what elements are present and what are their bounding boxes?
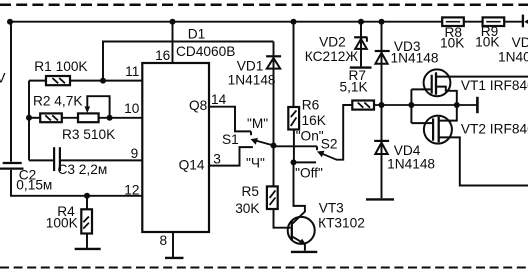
svg-text:"Off": "Off" <box>295 165 323 180</box>
ground bar under VD4 <box>366 198 394 200</box>
wire: S2 off node down to VT3 collector <box>293 162 305 223</box>
svg-text:КТ3102: КТ3102 <box>318 216 365 231</box>
junction R3/wiper/pin10 <box>107 115 113 121</box>
wire: R7 right to output row and terminal <box>374 104 476 106</box>
wire: S1 common to S2 On contact <box>274 145 318 147</box>
wire: R4 top lead <box>86 196 88 210</box>
svg-text:R6: R6 <box>302 97 320 112</box>
wire: R4 bottom lead <box>86 234 88 248</box>
transistor VT3 circle <box>288 217 315 244</box>
wire: R1 right lead to pin 11 <box>70 80 143 82</box>
junction on bus at left vertical <box>7 19 13 25</box>
zener VD2 cathode bar <box>354 36 367 38</box>
VT2 gate bar <box>432 118 434 140</box>
svg-text:VD2: VD2 <box>319 35 346 50</box>
VT1 gate bar <box>431 75 433 94</box>
wire: VT2 gate lead <box>411 122 433 124</box>
svg-text:1N4007: 1N4007 <box>498 49 528 64</box>
svg-text:R3 510K: R3 510K <box>62 127 115 142</box>
diode VD1 triangle <box>267 58 280 69</box>
junction VT1 source / VT2 drain / output <box>454 102 460 108</box>
svg-text:5,1K: 5,1K <box>340 79 368 94</box>
diode VD4 cathode bar <box>374 140 389 142</box>
ground bar under VT3 emitter <box>291 251 317 253</box>
capacitor C3 plates <box>53 147 55 171</box>
junction gate bus on output row <box>408 102 414 108</box>
junction RC node at R2 <box>26 115 32 121</box>
svg-text:V: V <box>0 71 6 86</box>
svg-text:12: 12 <box>124 183 139 198</box>
zener VD2 triangle <box>355 39 367 49</box>
junction on bus at pin16 drop <box>170 19 176 25</box>
resistor R5 body <box>267 186 278 209</box>
svg-text:C3 2,2м: C3 2,2м <box>58 162 108 177</box>
svg-text:10K: 10K <box>475 34 499 49</box>
svg-text:1N4148: 1N4148 <box>228 73 276 88</box>
S2 blade arrowhead <box>317 151 325 158</box>
svg-text:VD4: VD4 <box>394 143 421 158</box>
wire: pin 8 to ground <box>172 232 174 257</box>
VT3 emitter arrowhead <box>298 239 306 245</box>
zener VD2 bar tick <box>366 37 368 42</box>
resistor R8 body <box>442 17 464 26</box>
resistor R9 body <box>483 17 505 26</box>
wire: C2 bottom to pin 12 <box>11 170 143 196</box>
svg-text:8: 8 <box>160 233 168 248</box>
VT2 channel bar <box>438 117 440 143</box>
diode VD5 cathode bar <box>522 15 524 28</box>
resistor R6 body <box>288 107 299 130</box>
junction S1 common / VD1 anode / R5 <box>271 143 277 149</box>
wire: R2 left lead <box>29 117 40 119</box>
wire: bus drop to R6 <box>293 22 295 107</box>
svg-text:CD4060B: CD4060B <box>176 44 235 59</box>
wire: R3 right lead to pin 10 <box>99 117 143 119</box>
svg-text:11: 11 <box>125 64 139 79</box>
svg-text:VT3: VT3 <box>319 200 344 215</box>
R3 wiper arm wire <box>87 96 109 118</box>
svg-text:VT1 IRF840: VT1 IRF840 <box>461 78 528 93</box>
svg-text:30K: 30K <box>235 201 259 216</box>
ground bar under VD2 <box>350 66 372 68</box>
wire: RC common node vertical <box>28 81 30 161</box>
wire: VDD drop to pin 16 <box>172 22 174 63</box>
resistor R4 body <box>81 209 92 233</box>
wire: VD1 cathode line down through S1 common to R5 <box>273 42 275 187</box>
wire: C3 to pin 9 <box>61 159 143 161</box>
svg-text:КС212Ж: КС212Ж <box>305 49 359 64</box>
wire: S2 Off contact stub <box>294 161 317 163</box>
svg-text:S1: S1 <box>222 132 239 147</box>
wire: VD3/VD4 vertical line <box>381 22 383 199</box>
svg-text:VD1: VD1 <box>237 59 264 74</box>
svg-text:16: 16 <box>155 48 171 63</box>
ground bar under R4 <box>75 248 101 250</box>
S1 blade arrowhead <box>251 138 259 145</box>
svg-text:100K: 100K <box>46 215 78 230</box>
top dashed border <box>0 3 528 6</box>
terminal bar at output <box>476 97 479 113</box>
svg-text:1N4148: 1N4148 <box>387 157 435 172</box>
svg-text:3: 3 <box>213 152 221 167</box>
VT3 emitter <box>292 236 305 250</box>
wire: VT1 drain out right <box>436 76 528 78</box>
transistor VT2 circle <box>424 116 452 144</box>
resistor R2 body <box>40 113 62 122</box>
svg-text:VT2 IRF840: VT2 IRF840 <box>461 122 528 137</box>
junction VD3/VD4 on output row <box>379 102 385 108</box>
svg-text:S2: S2 <box>321 136 338 151</box>
zener VD2 cathode line to ground <box>360 22 362 67</box>
VT1 channel bar <box>435 72 437 94</box>
diode VD1 cathode bar <box>266 55 281 57</box>
S1 M contact tick <box>250 131 252 135</box>
junction on bus at R6 drop <box>291 19 297 25</box>
resistor R7 body <box>352 101 374 110</box>
svg-text:9: 9 <box>131 146 139 161</box>
wire: node to C3 <box>29 159 53 161</box>
diode VD3 cathode bar <box>375 50 390 52</box>
potentiometer R3 body <box>78 113 99 122</box>
diode VD4 triangle <box>375 143 387 154</box>
wire: pin 3 Q14 to S1 Ch contact <box>209 147 253 166</box>
svg-text:"On": "On" <box>296 128 324 143</box>
svg-text:D1: D1 <box>188 27 206 42</box>
wire: pin11 node branch up and over to VD1 <box>103 42 274 81</box>
wire: R2 to R3 <box>62 117 78 119</box>
svg-text:14: 14 <box>211 92 227 107</box>
wire: S2 common up to R7 <box>336 105 352 160</box>
wire: VT2 source out right <box>439 137 528 185</box>
svg-text:10: 10 <box>124 101 140 116</box>
junction R1/pin11/VD1 branch <box>100 78 106 84</box>
VT3 base bar <box>291 220 293 240</box>
wire: VT1 gate lead <box>411 88 430 90</box>
ground bar under pin 8 <box>165 257 184 259</box>
svg-text:"М": "М" <box>247 116 268 131</box>
wire: gate bus vertical <box>410 89 412 123</box>
capacitor C2 plates <box>3 162 22 164</box>
junction node R4 top <box>84 193 90 199</box>
wire: top supply bus <box>10 21 523 23</box>
IC D1 CD4060B body <box>142 63 209 232</box>
svg-text:R5: R5 <box>242 184 260 199</box>
wire: VT1 source down to VT2 drain <box>436 87 457 121</box>
svg-text:16K: 16K <box>302 113 326 128</box>
wire: R5 bottom to VT3 base <box>274 209 291 228</box>
svg-text:Q8: Q8 <box>189 98 208 113</box>
wire: pin 14 Q8 to S1 M contact <box>209 107 251 132</box>
switch S2 blade <box>320 153 337 160</box>
switch S1 blade <box>254 140 274 146</box>
wire: left supply vertical <box>10 22 12 162</box>
S2 On contact tick <box>316 146 318 150</box>
diode VD3 triangle <box>375 53 387 64</box>
svg-text:10K: 10K <box>440 35 464 50</box>
svg-text:Q14: Q14 <box>179 158 205 173</box>
junction S2 off contact node <box>291 159 297 165</box>
svg-text:VD5: VD5 <box>512 35 528 50</box>
R3 wiper arrowhead <box>85 106 91 113</box>
wire: R6 bottom lead <box>293 130 295 163</box>
bottom dashed border <box>0 267 528 269</box>
junction on bus at VD2 drop <box>358 19 364 25</box>
junction on bus at VD3 drop <box>379 19 385 25</box>
wire: R1 left lead <box>29 80 46 82</box>
svg-text:R1 100K: R1 100K <box>34 59 87 74</box>
svg-text:1N4148: 1N4148 <box>391 51 439 66</box>
diode VD5 triangle <box>524 15 528 28</box>
transistor VT1 circle <box>424 69 451 96</box>
svg-text:"Ч": "Ч" <box>246 155 265 170</box>
svg-text:R2 4,7K: R2 4,7K <box>33 93 82 108</box>
resistor R1 body <box>46 76 70 85</box>
svg-text:0,15м: 0,15м <box>16 178 52 193</box>
